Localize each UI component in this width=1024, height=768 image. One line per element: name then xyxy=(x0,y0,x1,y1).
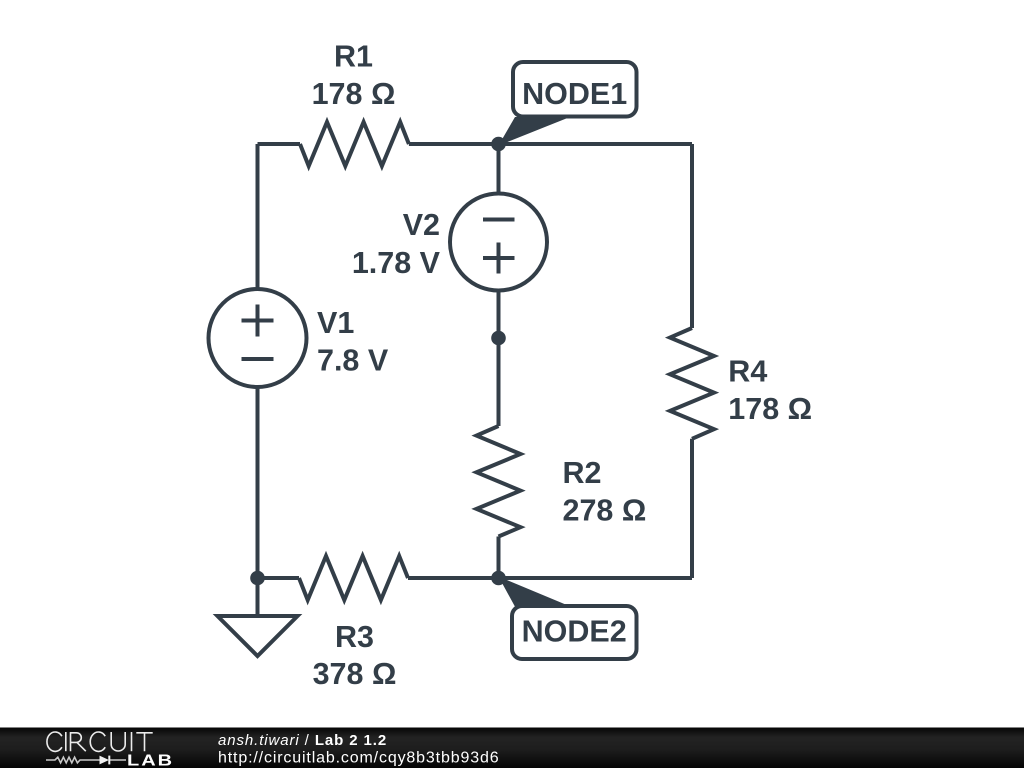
svg-text:178 Ω: 178 Ω xyxy=(312,77,396,111)
node NODE2 junction dot xyxy=(491,571,506,586)
svg-text:ansh.tiwari / Lab 2 1.2: ansh.tiwari / Lab 2 1.2 xyxy=(218,732,387,749)
svg-text:278 Ω: 278 Ω xyxy=(563,494,647,528)
resistor R1 xyxy=(300,122,409,166)
CircuitLab logo wordmark CIRCUIT xyxy=(47,732,153,751)
wire right vertical to R4 xyxy=(690,144,694,328)
wire V2 bottom to node xyxy=(497,291,501,339)
NODE2 callout pointer xyxy=(499,577,569,609)
NODE2 callout box xyxy=(512,606,637,659)
svg-text:R1: R1 xyxy=(334,40,373,74)
svg-text:R3: R3 xyxy=(335,620,374,654)
resistor R3 xyxy=(299,556,408,600)
svg-text:NODE2: NODE2 xyxy=(522,614,627,648)
resistor R2 xyxy=(477,426,521,537)
wire node1 to V2 top xyxy=(497,144,501,194)
svg-text:7.8 V: 7.8 V xyxy=(317,344,389,378)
svg-text:R2: R2 xyxy=(563,456,602,490)
svg-text:378 Ω: 378 Ω xyxy=(313,657,397,691)
voltage source V1 xyxy=(209,289,307,387)
node dot bottom-left (ground) xyxy=(250,571,265,586)
wire node to R2 xyxy=(497,338,501,426)
logo resistor-diode doodle xyxy=(46,757,126,763)
svg-text:1.78 V: 1.78 V xyxy=(352,246,441,280)
wire V1 bottom to ground node xyxy=(256,387,260,578)
svg-text:V2: V2 xyxy=(403,208,440,242)
ground stub xyxy=(256,578,260,616)
NODE1 callout pointer xyxy=(499,117,571,146)
ground symbol xyxy=(218,616,298,656)
svg-text:http://circuitlab.com/cqy8b3tb: http://circuitlab.com/cqy8b3tbb93d6 xyxy=(218,750,499,767)
voltage source V2 xyxy=(450,194,547,291)
logo diode xyxy=(100,756,110,765)
svg-text:V1: V1 xyxy=(317,306,354,340)
wire bottom-left to R3 xyxy=(258,576,300,580)
svg-text:LAB: LAB xyxy=(127,751,174,768)
wire bottom R3 to bottom-right corner xyxy=(408,576,692,580)
wire top horizontal R1 to top-right corner xyxy=(409,142,692,146)
wire R2 to bottom node xyxy=(497,537,501,579)
svg-text:178 Ω: 178 Ω xyxy=(728,392,812,426)
resistor R4 xyxy=(670,328,714,439)
wire R4 to bottom-right corner xyxy=(690,439,694,578)
wire top-left vertical (V1 top lead) xyxy=(256,144,260,289)
wire top-left horizontal to R1 xyxy=(258,142,301,146)
NODE1 callout box xyxy=(513,62,637,117)
node NODE1 junction dot xyxy=(491,137,506,152)
node dot between V2 and R2 xyxy=(491,331,506,346)
svg-text:R4: R4 xyxy=(728,355,767,389)
svg-text:NODE1: NODE1 xyxy=(522,77,627,111)
